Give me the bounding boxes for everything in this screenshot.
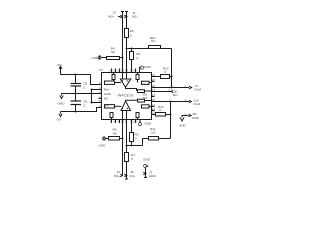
wire bottom feedback y145: [126, 145, 143, 147]
U1 internal resistor top left: [112, 73, 115, 83]
svg-text:0: 0: [131, 157, 133, 161]
U1 bottom pin stubs and numbers: [110, 119, 137, 123]
wire ref pins vertical: [91, 89, 102, 104]
U1 internal resistor right A: [142, 81, 152, 84]
U1 internal resistor left pin1: [105, 81, 121, 84]
connector J10 Out1: [184, 98, 200, 106]
svg-text:GND: GND: [144, 65, 152, 69]
svg-text:GND: GND: [192, 116, 200, 120]
svg-text:NC: NC: [111, 50, 116, 54]
wire line1 IN2+ vertical: [121, 12, 124, 80]
resistor R12: [152, 105, 172, 116]
op-amp U1 main rectangle: [102, 73, 152, 120]
U1 left pin labels: [104, 88, 112, 108]
resistor R13: [152, 66, 173, 78]
svg-text:GND: GND: [149, 174, 157, 178]
svg-text:EN: EN: [173, 93, 177, 97]
svg-text:IN1+: IN1+: [114, 174, 121, 178]
svg-text:NC: NC: [113, 131, 118, 135]
svg-text:GND: GND: [58, 102, 66, 106]
wire +5V rail to pin V+: [61, 74, 102, 85]
resistor R4: [101, 46, 123, 59]
svg-text:IN4152S: IN4152S: [118, 93, 134, 97]
svg-text:0: 0: [137, 56, 139, 60]
node feedback2 wire y48.5: [126, 48, 149, 50]
wire lineB IN1- vertical lower: [125, 162, 128, 180]
ground symbol left: [58, 94, 66, 106]
svg-text:Out1: Out1: [194, 102, 201, 106]
wire Out2: [152, 87, 190, 89]
svg-text:0: 0: [135, 136, 137, 140]
ground rail left: [62, 93, 102, 95]
svg-text:NC: NC: [104, 96, 109, 100]
wire R10 to corner down to Out2: [161, 49, 172, 88]
U1 internal resistor top right: [136, 73, 139, 83]
svg-text:U1: U1: [99, 68, 103, 72]
svg-text:GND: GND: [91, 56, 99, 60]
supply -5V: [56, 112, 62, 122]
connector J6 EN: [171, 90, 178, 97]
U1 internal resistor bottom right: [136, 113, 139, 120]
connector J9 IN1+: [114, 170, 123, 178]
svg-text:22: 22: [133, 69, 137, 73]
svg-text:NC: NC: [151, 39, 156, 43]
U1 internal resistor bottom left: [110, 113, 113, 120]
svg-text:16: 16: [152, 93, 156, 97]
wire line2 IN2- vertical lower: [126, 38, 128, 80]
svg-text:20: 20: [152, 78, 156, 82]
U1 internal resistor right D: [142, 105, 152, 108]
U1 internal op-amp bottom triangle: [121, 100, 137, 110]
resistor R7: [125, 153, 136, 162]
svg-text:NC: NC: [143, 96, 148, 100]
svg-text:0: 0: [164, 70, 166, 74]
svg-text:Out2: Out2: [194, 88, 201, 92]
wire lineA IN1+ vertical: [122, 111, 124, 176]
resistor R5: [125, 29, 135, 38]
wire EN to J6: [152, 88, 172, 92]
ground supply circle at R4: [91, 55, 101, 60]
wire lineB IN1- vertical upper: [126, 111, 128, 153]
supply +5V: [56, 63, 63, 74]
svg-text:IN2+: IN2+: [108, 15, 115, 19]
U1 left pin stubs and numbers: [99, 81, 102, 108]
svg-text:NC: NC: [151, 131, 156, 135]
connector J11 GND: [179, 112, 200, 128]
resistor R6: [99, 128, 124, 148]
wire line2 IN2- vertical upper: [125, 12, 128, 29]
svg-text:IN1-: IN1-: [130, 174, 136, 178]
resistor R9: [130, 120, 139, 146]
svg-text:GND: GND: [179, 123, 187, 127]
ground supply circle bottom right of U1: [139, 120, 152, 126]
U1 internal resistor right C: [138, 99, 152, 102]
connector J1 IN2-: [124, 11, 137, 19]
connector J3 IN2+: [108, 10, 122, 18]
svg-text:GND: GND: [143, 158, 151, 162]
svg-text:0: 0: [130, 33, 132, 37]
resistor R8: [130, 49, 141, 73]
U1 internal resistor left pin6: [105, 105, 122, 108]
U1 internal op-amp top triangle: [120, 79, 136, 91]
svg-text:Ref: Ref: [104, 104, 109, 108]
capacitor C6: [71, 94, 88, 112]
U1 top pin stubs and numbers: [109, 69, 137, 73]
svg-text:+5V: +5V: [56, 63, 63, 67]
svg-text:0: 0: [159, 108, 161, 112]
U1 right pin stubs and numbers: [152, 73, 156, 115]
wire Out1: [152, 101, 189, 103]
wire feedback1 vertical right: [170, 102, 172, 139]
svg-text:GND: GND: [144, 122, 152, 126]
U1 internal resistor right B: [138, 90, 152, 93]
connector J4 Out2: [184, 84, 201, 92]
ground supply circle top right of U1: [139, 65, 152, 72]
svg-text:13: 13: [134, 119, 138, 123]
resistor R10: [149, 36, 161, 48]
connector J7 GND: [143, 158, 156, 178]
svg-text:Ref: Ref: [104, 88, 109, 92]
connector J8 IN1-: [124, 170, 135, 178]
svg-text:GND: GND: [99, 144, 107, 148]
resistor R11: [143, 127, 171, 145]
capacitor C5: [71, 75, 88, 94]
wire -5V rail to pin V-: [61, 108, 102, 113]
svg-text:24: 24: [125, 69, 129, 73]
svg-text:IN2-: IN2-: [132, 15, 138, 19]
U1 right pin labels: [143, 92, 148, 100]
